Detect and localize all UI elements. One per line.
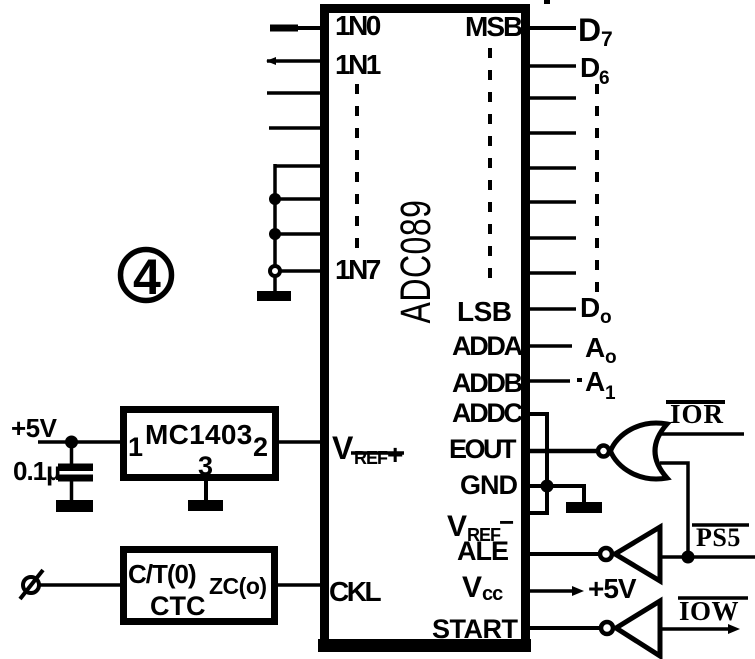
- op-amp U2 NOR gate: [598, 423, 667, 479]
- wire ALE to inverter: [526, 552, 599, 556]
- svg-text:7: 7: [601, 28, 613, 51]
- net label D7: [578, 12, 613, 51]
- svg-text:V: V: [332, 430, 354, 466]
- svg-text:ZC(o): ZC(o): [209, 573, 267, 599]
- svg-text:PS5: PS5: [696, 523, 741, 552]
- pin label Vcc: [462, 571, 503, 605]
- wire scan artifact top: [544, 0, 550, 4]
- svg-text:ADC089: ADC089: [392, 200, 439, 324]
- wire pin2 to VREF+: [277, 440, 325, 444]
- wire data output 4: [526, 131, 576, 135]
- net label IOW: [678, 596, 748, 626]
- capacitor C1 0.1u: [58, 442, 93, 501]
- svg-text:MC1403: MC1403: [145, 419, 253, 450]
- svg-text:1N7: 1N7: [335, 254, 381, 285]
- svg-text:MSB: MSB: [465, 11, 522, 42]
- wire EOUT to NOR output: [526, 449, 598, 454]
- wire NOR lower input from PS5: [660, 463, 688, 557]
- ground GND pin: [566, 502, 602, 513]
- wire 1N1 input: [266, 57, 325, 65]
- node junction +5V/C1: [65, 436, 78, 449]
- svg-text:GND: GND: [460, 470, 518, 500]
- wire dashed internal left: [355, 84, 359, 250]
- svg-text:4: 4: [133, 249, 161, 305]
- svg-text:REF: REF: [354, 448, 388, 468]
- wire phi to CTC: [40, 583, 124, 587]
- svg-text:3: 3: [198, 451, 213, 481]
- transistor U3 inverter ALE: [600, 527, 660, 581]
- wire START to inverter: [526, 626, 601, 630]
- wire data output 5: [526, 166, 576, 170]
- svg-text:A: A: [585, 332, 605, 363]
- ground input bus: [257, 291, 291, 301]
- svg-text:0.1µ: 0.1µ: [13, 456, 60, 486]
- svg-text:cc: cc: [482, 583, 503, 605]
- ground C1: [56, 500, 93, 512]
- net label PS5: [692, 523, 749, 552]
- node junction input 7: [269, 228, 281, 240]
- wire input 6: [275, 197, 325, 201]
- svg-text:CTC: CTC: [150, 591, 206, 621]
- svg-text:EOUT: EOUT: [449, 434, 517, 464]
- svg-text:V: V: [462, 571, 482, 604]
- svg-text:D: D: [578, 12, 601, 48]
- svg-text:ADDA: ADDA: [452, 331, 523, 361]
- svg-text:ADDB: ADDB: [452, 368, 523, 398]
- wire 1N7 input: [275, 269, 325, 273]
- svg-text:ALE: ALE: [457, 536, 508, 566]
- node junction GND/ADDC: [541, 480, 554, 493]
- wire D6 output: [526, 64, 576, 68]
- svg-text:+5V: +5V: [588, 573, 637, 604]
- wire ADDA output: [526, 344, 572, 348]
- svg-text:START: START: [432, 614, 518, 644]
- op-amp U5 MC1403 box: [124, 410, 276, 478]
- wire dashed data bus: [595, 84, 599, 292]
- pin label VREF+: [332, 430, 404, 470]
- svg-text:ADDC: ADDC: [452, 398, 523, 428]
- wire ADDC loop: [526, 414, 547, 513]
- svg-text:A: A: [585, 366, 605, 397]
- wire data output 6: [526, 200, 576, 204]
- net label D6: [580, 52, 610, 89]
- wire dashed internal right: [488, 48, 492, 290]
- svg-text:1: 1: [605, 383, 616, 404]
- svg-text:LSB: LSB: [457, 296, 512, 327]
- svg-text:1N0: 1N0: [335, 10, 381, 41]
- wire input 4: [269, 126, 325, 130]
- wire inverter input from PS5: [660, 555, 755, 559]
- net label A1: [577, 366, 616, 404]
- svg-text:1: 1: [128, 432, 143, 462]
- node junction PS5: [682, 551, 695, 564]
- wire input 3: [267, 91, 325, 95]
- wire data output 7: [526, 236, 576, 240]
- wire Vcc to +5V: [526, 586, 584, 596]
- wire IOR input: [660, 432, 744, 436]
- svg-text:−: −: [499, 507, 514, 537]
- svg-text:IOW: IOW: [679, 596, 739, 626]
- net label phi clock: [20, 570, 43, 599]
- wire input bus vertical: [273, 164, 277, 292]
- svg-text:+5V: +5V: [11, 413, 58, 443]
- net label A0: [585, 332, 617, 368]
- net label IOR: [666, 399, 725, 429]
- svg-text:D: D: [580, 292, 600, 323]
- wire input 5: [275, 164, 325, 168]
- svg-text:D: D: [580, 52, 600, 83]
- wire data output 3: [526, 96, 576, 100]
- wire IOW input: [660, 624, 740, 634]
- svg-text:C/T(0): C/T(0): [128, 559, 196, 589]
- wire CTC to CKL: [275, 583, 325, 587]
- node open terminal 1N7: [270, 266, 280, 276]
- wire D0 output: [526, 307, 576, 311]
- svg-text:6: 6: [599, 68, 610, 89]
- svg-text:CKL: CKL: [329, 576, 381, 607]
- node junction input 6: [269, 193, 281, 205]
- wire GND: [526, 486, 584, 503]
- svg-text:1N1: 1N1: [335, 49, 381, 80]
- svg-text:o: o: [605, 347, 617, 368]
- wire input 7: [275, 232, 325, 236]
- wire data output 8: [526, 271, 576, 275]
- ground pin3: [188, 500, 223, 511]
- wire 1N0 input: [270, 25, 325, 32]
- wire D7 output: [526, 26, 576, 30]
- wire pin3 to ground: [204, 478, 208, 501]
- wire +5V to pin1: [38, 440, 121, 444]
- op-amp U6 CTC box: [124, 550, 275, 622]
- svg-text:o: o: [600, 307, 612, 328]
- node figure label 4: [121, 249, 172, 305]
- wire ADDB output: [526, 379, 570, 383]
- net label D0: [580, 292, 612, 328]
- svg-text:2: 2: [253, 432, 268, 462]
- pin label VREF-: [447, 507, 514, 545]
- transistor U4 inverter START: [601, 601, 660, 656]
- op-amp U1 ADC089 chip body: [318, 9, 531, 653]
